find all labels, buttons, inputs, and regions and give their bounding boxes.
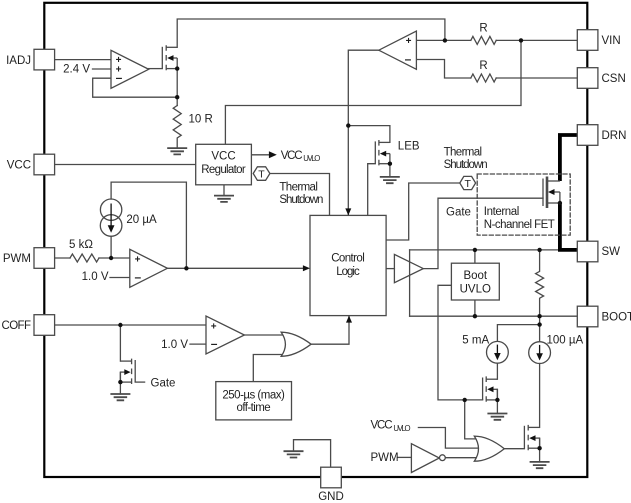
transistor Q2 body arrow (points right) — [124, 369, 130, 375]
wire COFF pin row — [54, 324, 206, 326]
box 250us one-shot — [216, 382, 292, 420]
wire LEB gate to control logic — [368, 164, 376, 216]
transistor LEB gate plate — [374, 141, 376, 163]
wire 1.0V to U3 minus — [110, 277, 130, 279]
pin box VCC — [34, 154, 55, 175]
transistor Q1 body arrow — [167, 55, 173, 61]
wire BOOT row to 100uA source — [539, 316, 541, 342]
wire Q2 gate stub — [135, 381, 144, 383]
wire 20uA top loop to comparator output node — [111, 182, 186, 268]
svg-text:Internal: Internal — [484, 206, 520, 218]
svg-text:+: + — [406, 36, 412, 47]
transistor Q1 channel — [165, 45, 167, 71]
svg-text:Gate: Gate — [446, 206, 471, 218]
transistor Q2 channel — [131, 359, 133, 385]
wire control logic to T2 hexagon — [386, 183, 460, 240]
transistor Q1 gate plate — [161, 47, 163, 69]
svg-text:Gate: Gate — [151, 377, 176, 389]
wire 20uA bottom to PWM input node — [110, 236, 112, 258]
wire U3 output to control logic — [167, 267, 303, 269]
svg-text:Shutdown: Shutdown — [444, 159, 488, 171]
node dot U2 output branch — [346, 123, 350, 127]
wire OR2 top input — [465, 400, 479, 439]
or-gate OR1 — [281, 332, 311, 356]
transistor LEB body lead — [384, 153, 390, 155]
wire VIN sense to VCC regulator top — [225, 40, 521, 144]
transistor Q1 source stub — [166, 68, 177, 70]
wire U2 minus input to R lower — [416, 60, 470, 79]
transistor Q2 drain stub — [120, 360, 131, 362]
resistor R SW-BOOT — [536, 250, 544, 316]
resistor 10R — [173, 106, 181, 149]
svg-text:Thermal: Thermal — [279, 182, 318, 194]
transistor LEB body arrow — [380, 151, 386, 157]
wire Q3 source to ground — [496, 389, 498, 413]
wire VCC pin to regulator — [54, 164, 196, 166]
wire 5mA branch — [497, 325, 539, 342]
wire buffer output to internal FET gate — [423, 198, 543, 268]
transistor Q4 gate plate — [523, 426, 525, 449]
transistor Q4 channel — [527, 425, 529, 451]
current source 20uA circles — [100, 199, 121, 220]
svg-text:T: T — [464, 178, 471, 190]
current source 5mA arrow — [496, 345, 498, 354]
wire U2 plus input row from VIN — [416, 39, 470, 41]
wire boot uvlo left to Q3 gate and OR2 — [438, 285, 483, 400]
wire OR2 output to Q4 gate — [504, 448, 524, 450]
op-amp U2 (current sense amp) — [379, 31, 417, 69]
transistor Q5 body arrow — [548, 189, 555, 195]
or-gate OR2 — [474, 436, 504, 461]
resistor R lower — [471, 74, 496, 82]
wire 2.4V to U1 — [93, 68, 112, 70]
node dot Q3 source — [495, 398, 499, 402]
svg-text:PWM: PWM — [371, 452, 399, 464]
pin box SW — [577, 241, 598, 262]
wire 100uA to Q4 drain — [539, 364, 541, 428]
wire Q4 source to ground — [539, 438, 541, 462]
arrow VCCUVLO output — [269, 151, 277, 158]
svg-text:N-channel FET: N-channel FET — [484, 219, 555, 231]
ground near GND pin — [284, 451, 304, 457]
wire control logic to driver buffer — [386, 268, 394, 270]
transistor Q2 gate plate (mirrored) — [134, 360, 136, 382]
transistor Q1 body lead — [172, 57, 178, 59]
wire boot uvlo bottom — [474, 300, 476, 316]
node dot COFF row — [118, 323, 122, 327]
wire Q2 source to ground — [119, 372, 121, 394]
transistor Q5 channel — [546, 177, 549, 209]
wire COFF node down to Q2 drain — [119, 325, 121, 361]
wire Q1 drain to top rail — [177, 19, 445, 47]
svg-text:100 µA: 100 µA — [547, 334, 584, 346]
box control logic — [310, 215, 386, 315]
svg-text:R: R — [479, 60, 487, 72]
driver buffer U6 — [394, 254, 423, 282]
comparator U3 (PWM) — [130, 249, 168, 287]
node dot SW row resistor — [537, 248, 541, 252]
svg-text:VCC: VCC — [281, 150, 303, 162]
svg-text:VCC: VCC — [371, 419, 393, 431]
svg-text:250-µs (max): 250-µs (max) — [222, 389, 285, 401]
ground under VCC regulator — [214, 196, 234, 202]
wire BOOT row — [410, 315, 578, 317]
transistor Q4 drain stub — [528, 426, 539, 428]
node dot Q4 source — [537, 446, 541, 450]
node dot FB node — [175, 95, 179, 99]
svg-text:–: – — [116, 71, 123, 85]
node dot Q5 source — [558, 201, 562, 205]
box boot uvlo — [451, 263, 499, 300]
wire GND pin to internal ground — [294, 440, 331, 468]
svg-text:LEB: LEB — [398, 141, 420, 153]
svg-text:GND: GND — [318, 491, 344, 503]
node dot BOOT row resistor — [537, 314, 541, 318]
wire 5k to comparator U3 — [99, 257, 130, 259]
wire U1 feedback to node FB — [93, 78, 178, 97]
transistor Q5 source stub — [547, 202, 560, 204]
wire boot uvlo top — [474, 250, 476, 263]
wire U2 output down to control logic — [348, 50, 379, 214]
svg-text:Control: Control — [331, 253, 365, 265]
transistor Q2 source stub — [120, 381, 131, 383]
wire Q1 source to node FB to 10R — [176, 69, 178, 106]
svg-text:IADJ: IADJ — [6, 55, 31, 67]
box VCC regulator — [196, 144, 252, 185]
svg-text:SW: SW — [602, 246, 621, 258]
transistor Q5 drain stub — [547, 180, 560, 182]
svg-text:2.4 V: 2.4 V — [63, 64, 90, 76]
transistor Q5 body lead — [553, 191, 560, 193]
transistor Q1 drain stub — [166, 46, 177, 48]
node dot U3 output — [184, 266, 188, 270]
svg-text:COFF: COFF — [2, 320, 32, 332]
node dot Q2 source — [118, 380, 122, 384]
wire 1.0V to U4 minus — [190, 343, 206, 345]
svg-text:DRN: DRN — [602, 130, 627, 142]
current source 5mA circle — [487, 341, 509, 363]
svg-text:VCC: VCC — [211, 150, 235, 162]
wire regulator ground stem — [223, 185, 225, 196]
svg-text:10 R: 10 R — [189, 114, 213, 126]
svg-text:UVLO: UVLO — [393, 424, 410, 433]
wire IADJ to op-amp U1 — [54, 59, 111, 61]
pin box GND — [321, 467, 342, 488]
svg-text:VIN: VIN — [602, 35, 621, 47]
wire PWM label to inverter — [398, 456, 412, 458]
svg-text:–: – — [211, 336, 218, 350]
transistor Q3 channel — [485, 376, 487, 402]
current source 100uA circle — [529, 342, 551, 364]
arrow into control logic left — [303, 265, 310, 271]
svg-text:UVLO: UVLO — [303, 154, 320, 163]
wire branch to LEB drain — [348, 126, 390, 143]
svg-text:+: + — [211, 321, 217, 332]
current source 100uA arrow — [539, 345, 541, 354]
wire T1 to control logic — [270, 174, 330, 216]
wire PWM pin to 5k resistor — [54, 257, 70, 259]
wire OR1 output up to control logic — [311, 317, 349, 345]
node dot BOOT row boot uvlo — [473, 314, 477, 318]
resistor 5k — [70, 254, 99, 262]
ground under 10R — [167, 148, 187, 154]
svg-text:5 mA: 5 mA — [462, 334, 489, 346]
wire SW row down to BOOT row — [409, 250, 411, 316]
ground under LEB — [380, 177, 400, 183]
pin box VIN — [577, 30, 598, 51]
wire U1 output to Q1 gate — [149, 68, 163, 70]
svg-text:Thermal: Thermal — [444, 147, 483, 159]
inverter U5 (PWM) — [411, 444, 439, 473]
bold source path internal FET to SW — [560, 203, 578, 250]
inverter U5 bubble — [440, 455, 446, 461]
svg-text:Shutdown: Shutdown — [279, 194, 323, 206]
node dot PWM input — [109, 256, 113, 260]
svg-text:–: – — [405, 52, 412, 66]
transistor Q3 drain stub — [486, 378, 497, 380]
transistor Q5 internal FET gate plate — [542, 179, 544, 207]
svg-text:+: + — [135, 255, 141, 266]
svg-text:20 µA: 20 µA — [126, 214, 157, 226]
wire VCCUVLO to OR2 input — [418, 428, 478, 449]
svg-text:Logic: Logic — [336, 266, 360, 278]
svg-text:T: T — [258, 168, 265, 180]
arrow into control logic bottom — [346, 316, 352, 323]
ground under Q4 — [530, 462, 550, 468]
transistor Q3 body arrow — [487, 386, 493, 392]
current source 20uA arrow — [110, 204, 112, 227]
wire U4 output to OR1 — [244, 334, 284, 336]
dashed box internal FET — [477, 174, 570, 235]
svg-text:VCC: VCC — [7, 160, 31, 172]
svg-text:1.0 V: 1.0 V — [161, 339, 188, 351]
node dot 5mA branch — [537, 322, 541, 326]
node dot LEB source — [388, 162, 392, 166]
transistor LEB channel — [378, 140, 380, 166]
transistor Q4 body arrow — [529, 435, 535, 441]
pin box PWM — [34, 248, 55, 269]
ground under Q3 — [487, 414, 507, 420]
op-amp U1 (IADJ error amp) — [111, 50, 149, 88]
wire regulator output to VCCUVLO arrow — [251, 154, 269, 156]
comparator U4 (COFF) — [206, 316, 244, 354]
transistor Q4 body lead — [534, 437, 540, 439]
node dot SW row boot uvlo — [473, 248, 477, 252]
svg-text:R: R — [479, 22, 487, 34]
wire R lower to CSN pin — [496, 77, 577, 79]
pin box BOOT — [577, 306, 598, 327]
arrow into control logic top — [345, 208, 351, 215]
svg-text:UVLO: UVLO — [460, 283, 491, 295]
svg-text:BOOT: BOOT — [602, 312, 631, 324]
node dot Q1 source — [175, 66, 179, 70]
svg-text:1.0 V: 1.0 V — [82, 271, 109, 283]
transistor LEB source stub — [379, 163, 390, 165]
hexagon T1 thermal flag — [253, 167, 270, 181]
wire R upper to VIN pin — [496, 39, 577, 41]
wire LEB source to ground — [389, 164, 391, 177]
pin box CSN — [577, 68, 598, 89]
pin box COFF — [34, 315, 55, 336]
bold drain path DRN to internal FET — [560, 135, 578, 181]
wire inverter to OR2 input — [445, 457, 478, 459]
svg-text:CSN: CSN — [602, 73, 626, 85]
svg-text:–: – — [135, 270, 142, 284]
wire 5mA to Q3 drain — [496, 363, 498, 379]
svg-text:off-time: off-time — [237, 402, 271, 414]
transistor LEB drain stub — [379, 141, 390, 143]
transistor Q4 source stub — [528, 447, 539, 449]
resistor R upper — [471, 36, 496, 44]
svg-text:Regulator: Regulator — [201, 164, 246, 176]
node dot VIN row junction A — [443, 38, 447, 42]
svg-text:5 kΩ: 5 kΩ — [69, 239, 93, 251]
transistor Q3 gate plate — [482, 378, 484, 401]
node dot VIN sense junction — [519, 38, 523, 42]
transistor Q3 body lead — [492, 388, 498, 390]
ground under Q2 — [110, 394, 130, 400]
svg-text:PWM: PWM — [3, 253, 31, 265]
wire SW row — [410, 249, 560, 251]
wire one-shot to OR1 input — [253, 355, 284, 382]
transistor Q3 source stub — [486, 399, 497, 401]
svg-text:Boot: Boot — [463, 270, 487, 282]
transistor Q2 body lead — [120, 371, 126, 373]
hexagon T2 thermal flag — [460, 176, 476, 189]
node dot Q3 gate row — [463, 398, 467, 402]
pin box DRN — [577, 125, 598, 146]
